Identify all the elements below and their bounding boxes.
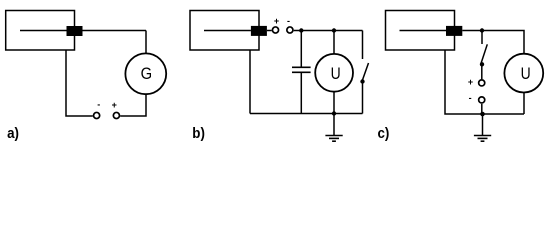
svg-text:U: U (331, 65, 341, 83)
wire voltmeter top lead b (333, 31, 335, 55)
voltmeter U (b) (315, 54, 353, 92)
node ground junction b (332, 111, 336, 115)
wire top bus c (462, 31, 524, 54)
wire - terminal to bottom bus c (481, 104, 483, 114)
box (piezo element) c (386, 11, 455, 51)
contact square b (251, 26, 267, 36)
node switch tap c (480, 28, 484, 32)
wire G bottom to + terminal (120, 94, 146, 116)
wire voltmeter bottom lead b (333, 92, 335, 114)
contact square a (67, 26, 83, 36)
ground bar 1 b (325, 135, 342, 137)
wire switch to + terminal c (481, 64, 483, 79)
label U (b) (331, 65, 341, 83)
box (piezo element) b (190, 11, 259, 51)
terminal - (a) (94, 112, 100, 118)
wire voltmeter bottom lead c (523, 92, 525, 114)
wire switch upper contact b (362, 31, 364, 60)
contact square c (446, 26, 462, 36)
wire electrode line a (20, 30, 146, 32)
node ground junction c (480, 112, 485, 117)
wire square to + terminal (267, 30, 272, 32)
svg-text:c): c) (378, 125, 390, 142)
terminal + (a) (113, 112, 119, 118)
ground bar 2 b (329, 137, 339, 139)
svg-text:U: U (521, 65, 531, 83)
label b) (192, 125, 205, 142)
node switch pivot b (360, 79, 364, 83)
svg-text:-: - (97, 99, 100, 109)
label c) (378, 125, 390, 142)
ground bar 3 c (481, 140, 485, 142)
node switch pivot c (480, 62, 484, 66)
label G (141, 65, 152, 83)
voltmeter U (c) (504, 54, 543, 93)
ground stem c (482, 114, 484, 135)
galvanometer G (125, 53, 166, 94)
ground stem b (333, 114, 335, 136)
svg-text:-: - (287, 16, 290, 26)
terminal - (b) (287, 27, 293, 33)
node capacitor tap (299, 28, 303, 32)
svg-text:+: + (274, 16, 279, 26)
svg-text:b): b) (192, 125, 205, 142)
wire switch to bottom bus b (362, 82, 364, 114)
ground bar 3 b (332, 140, 336, 142)
svg-text:G: G (141, 65, 152, 83)
terminal - (c) (479, 97, 485, 103)
terminal + (c) (479, 80, 485, 86)
label a) (7, 125, 19, 142)
wire - terminal to box bottom (66, 50, 93, 116)
wire left drop and bottom bus c (445, 50, 524, 114)
ground bar 2 c (478, 137, 488, 139)
wire electrode line c (400, 30, 447, 32)
capacitor C bottom plate (292, 71, 311, 73)
svg-text:+: + (112, 100, 117, 110)
wire switch upper contact c (481, 31, 483, 45)
node voltmeter tap (332, 28, 336, 32)
svg-text:-: - (469, 93, 472, 103)
switch blade b (362, 63, 368, 81)
wire electrode line b (204, 30, 251, 32)
capacitor C top plate (292, 66, 311, 68)
wire capacitor bottom lead (300, 72, 302, 113)
wire capacitor top lead (300, 31, 302, 68)
wire top bus b (294, 30, 363, 32)
terminal + (b) (272, 27, 278, 33)
wire bottom bus b (250, 113, 363, 115)
wire left drop b (249, 50, 251, 114)
box (piezo element) a (6, 11, 75, 51)
wire to galvanometer (145, 31, 147, 54)
switch blade c (481, 44, 487, 63)
label U (c) (521, 65, 531, 83)
svg-text:+: + (468, 77, 473, 87)
ground bar 1 c (474, 135, 491, 137)
svg-text:a): a) (7, 125, 19, 142)
